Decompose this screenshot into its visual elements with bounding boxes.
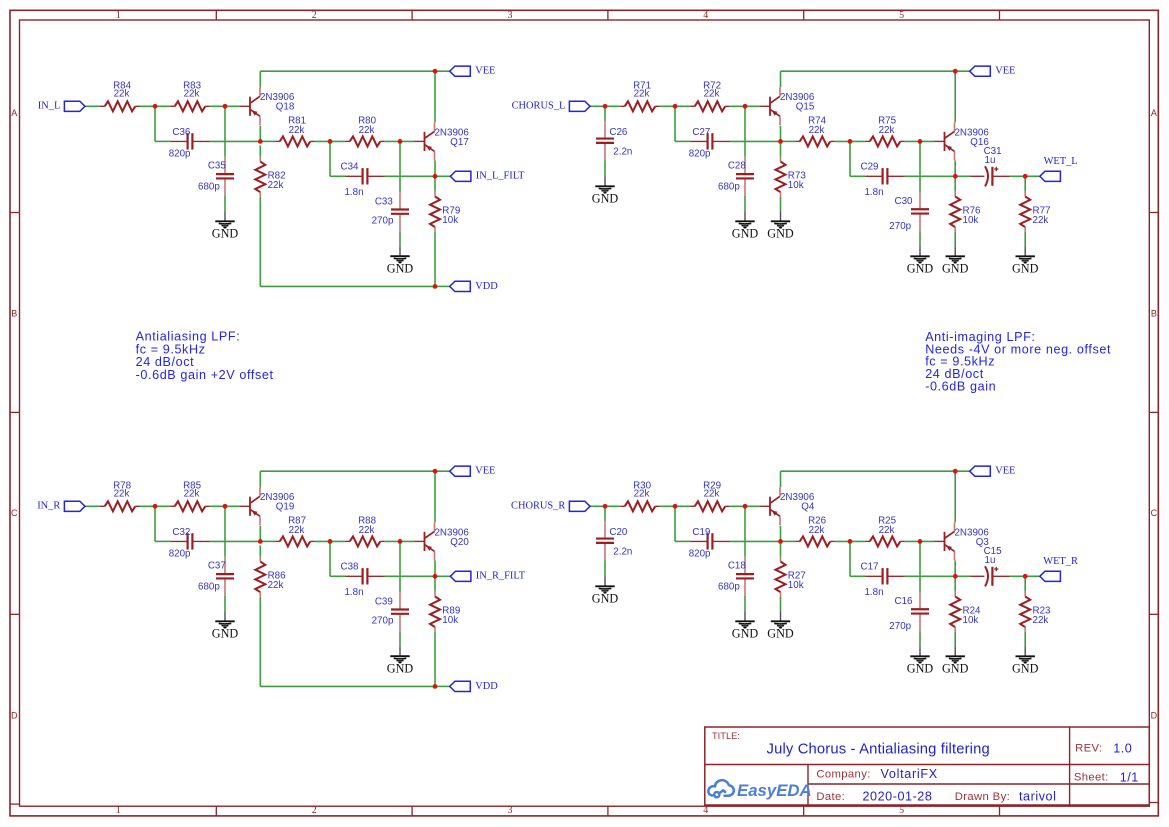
junction [433, 684, 438, 689]
title block divider [807, 765, 809, 806]
svg-text:WET_L: WET_L [1044, 156, 1078, 167]
wire [315, 540, 345, 542]
svg-text:22k: 22k [879, 525, 895, 536]
svg-text:C20: C20 [609, 527, 628, 538]
svg-text:GND: GND [942, 662, 969, 676]
svg-text:2.2n: 2.2n [613, 547, 632, 558]
svg-text:GND: GND [732, 627, 759, 641]
svg-text:CHORUS_R: CHORUS_R [511, 501, 565, 512]
wire [850, 175, 866, 177]
wire [434, 71, 436, 122]
capacitor C36 820p [169, 127, 210, 160]
svg-text:C26: C26 [609, 127, 628, 138]
junction [433, 69, 438, 74]
ground [942, 646, 969, 675]
wire [780, 541, 782, 556]
wire [399, 141, 401, 192]
wire [660, 105, 690, 107]
junction [918, 139, 923, 144]
wire [675, 540, 691, 542]
port CHORUS_R [511, 501, 590, 512]
capacitor C27 820p [689, 127, 730, 160]
frame tick [999, 806, 1001, 816]
svg-text:C30: C30 [895, 196, 914, 207]
frame tick [1149, 411, 1158, 413]
wire [260, 540, 275, 542]
svg-text:VEE: VEE [995, 66, 1015, 77]
svg-text:Company:: Company: [816, 769, 870, 781]
wire [210, 540, 261, 542]
port VDD [450, 281, 499, 292]
svg-text:1/1: 1/1 [1120, 770, 1139, 784]
svg-text:C35: C35 [208, 160, 227, 171]
capacitor C18 680p [718, 557, 754, 596]
svg-text:D: D [11, 710, 18, 720]
resistor R86 22k [255, 557, 286, 597]
wire [435, 470, 450, 472]
wire [399, 631, 401, 646]
wire [385, 575, 436, 577]
wire [675, 140, 691, 142]
transistor Q18 2N3906 PNP [240, 87, 295, 125]
svg-text:22k: 22k [704, 488, 720, 499]
capacitor C17 1.8n [861, 562, 905, 599]
wire [330, 175, 346, 177]
frame tick [215, 10, 217, 20]
svg-text:GND: GND [592, 592, 619, 606]
ground [767, 211, 794, 240]
svg-text:GND: GND [212, 227, 239, 241]
svg-text:3: 3 [508, 805, 513, 816]
svg-text:Date:: Date: [816, 791, 845, 803]
wire [435, 285, 450, 287]
svg-text:1.8n: 1.8n [864, 187, 883, 198]
wire [259, 126, 261, 141]
junction [258, 539, 263, 544]
resistor R27 10k [776, 557, 806, 597]
wire [850, 575, 866, 577]
capacitor C37 680p [198, 557, 234, 596]
svg-text:C32: C32 [172, 527, 190, 538]
svg-text:22k: 22k [704, 88, 720, 99]
wire [210, 105, 240, 107]
wire [155, 140, 171, 142]
svg-text:WET_R: WET_R [1043, 556, 1078, 567]
wire [744, 506, 746, 557]
capacitor C26 2.2n [596, 121, 632, 160]
wire [780, 141, 782, 156]
wire [905, 140, 935, 142]
capacitor C16 270p [889, 592, 929, 632]
junction [673, 504, 678, 509]
wire [730, 105, 760, 107]
junction [398, 539, 403, 544]
svg-text:1.0: 1.0 [1113, 741, 1132, 755]
svg-text:tarivol: tarivol [1019, 790, 1056, 804]
svg-text:Q19: Q19 [276, 502, 295, 513]
wire [385, 540, 415, 542]
svg-text:C18: C18 [728, 560, 747, 571]
capacitor C29 1.8n [861, 162, 905, 199]
svg-text:A: A [11, 108, 17, 118]
frame tick [10, 411, 20, 413]
svg-text:Drawn By:: Drawn By: [955, 791, 1010, 803]
wire [781, 540, 796, 542]
svg-text:IN_R_FILT: IN_R_FILT [476, 571, 526, 582]
wire [730, 540, 781, 542]
svg-text:22k: 22k [114, 88, 130, 99]
wire [674, 106, 676, 141]
junction [603, 504, 608, 509]
wire VEE rail [260, 470, 435, 472]
wire [781, 140, 796, 142]
svg-text:C27: C27 [692, 127, 710, 138]
svg-text:680p: 680p [718, 181, 740, 192]
wire [434, 161, 436, 177]
transistor Q19 2N3906 PNP [240, 487, 295, 525]
svg-text:Q17: Q17 [450, 137, 469, 148]
frame tick [411, 806, 413, 816]
svg-text:22k: 22k [268, 580, 284, 591]
svg-text:B: B [11, 309, 17, 319]
wire [604, 560, 606, 576]
svg-text:820p: 820p [689, 149, 711, 160]
ground [907, 646, 934, 675]
transistor Q4 2N3906 PNP [760, 487, 815, 525]
wire [259, 471, 261, 487]
junction [848, 139, 853, 144]
wire [849, 541, 851, 576]
wire [154, 106, 156, 141]
port CHORUS_L [512, 101, 590, 112]
svg-text:Antialiasing LPF:: Antialiasing LPF: [136, 329, 241, 343]
svg-text:C: C [1151, 508, 1158, 518]
frame tick [10, 803, 20, 805]
wire [780, 526, 782, 542]
wire [259, 545, 261, 556]
wire [590, 105, 605, 107]
svg-text:C38: C38 [341, 562, 360, 573]
wire [385, 175, 436, 177]
ground [767, 611, 794, 640]
resistor R83 22k [170, 81, 210, 112]
svg-text:REV:: REV: [1075, 743, 1102, 755]
svg-text:GND: GND [767, 227, 794, 241]
wire [224, 196, 226, 212]
junction [223, 504, 228, 509]
transistor Q15 2N3906 PNP [760, 87, 815, 125]
resistor R30 22k [620, 481, 660, 512]
wire [730, 140, 781, 142]
wire [905, 540, 935, 542]
wire [604, 106, 606, 121]
junction [848, 539, 853, 544]
wire [435, 70, 450, 72]
wire [224, 596, 226, 612]
svg-text:C39: C39 [375, 596, 393, 607]
wire [315, 140, 345, 142]
wire [1025, 175, 1040, 177]
svg-text:22k: 22k [879, 125, 895, 136]
wire [259, 71, 261, 87]
capacitor C39 270p [372, 592, 409, 631]
svg-text:22k: 22k [809, 525, 825, 536]
wire [224, 106, 226, 157]
wire [919, 231, 921, 247]
junction [953, 174, 958, 179]
junction [433, 174, 438, 179]
wire [140, 505, 171, 507]
wire [835, 140, 865, 142]
svg-text:TITLE:: TITLE: [712, 731, 740, 741]
svg-text:680p: 680p [718, 581, 740, 592]
wire [259, 526, 261, 542]
wire [1024, 632, 1026, 647]
title block box [705, 727, 1150, 805]
wire [919, 541, 921, 592]
svg-text:1: 1 [116, 10, 121, 21]
junction [153, 104, 158, 109]
frame tick [10, 212, 20, 214]
svg-text:270p: 270p [889, 221, 911, 232]
wire [835, 540, 865, 542]
frame tick [215, 806, 217, 816]
frame tick [1149, 613, 1158, 615]
resistor R75 22k [865, 116, 905, 147]
junction [328, 539, 333, 544]
svg-text:10k: 10k [963, 215, 979, 226]
resistor R73 10k [776, 157, 807, 197]
wire [604, 160, 606, 176]
transistor Q20 2N3906 PNP [415, 522, 470, 560]
wire [674, 506, 676, 541]
svg-text:C29: C29 [861, 162, 879, 173]
svg-text:4: 4 [703, 10, 708, 21]
ground [387, 646, 414, 675]
svg-text:GND: GND [907, 662, 934, 676]
svg-text:22k: 22k [289, 525, 305, 536]
wire [434, 176, 436, 191]
capacitor C32 820p [169, 527, 210, 560]
svg-text:IN_L_FILT: IN_L_FILT [476, 171, 525, 182]
wire [1024, 576, 1026, 591]
svg-text:1u: 1u [985, 155, 996, 166]
junction [433, 469, 438, 474]
wire [744, 196, 746, 212]
wire [730, 505, 760, 507]
wire [919, 141, 921, 192]
resistor R29 22k [690, 481, 730, 512]
svg-text:-0.6dB gain +2V offset: -0.6dB gain +2V offset [136, 368, 274, 382]
svg-text:22k: 22k [359, 525, 375, 536]
svg-text:680p: 680p [198, 181, 220, 192]
svg-text:C16: C16 [895, 596, 914, 607]
title block divider [705, 764, 1150, 766]
resistor R82 22k [255, 157, 285, 197]
resistor R76 10k [950, 192, 981, 232]
svg-text:EasyEDA: EasyEDA [737, 781, 812, 800]
wire [919, 631, 921, 647]
wire [329, 541, 331, 576]
wire [434, 561, 436, 577]
capacitor C31 1u polarized [971, 146, 1010, 186]
wire VEE rail [781, 70, 956, 72]
port VDD [450, 681, 499, 692]
wire [85, 105, 101, 107]
resistor R77 22k [1020, 192, 1050, 232]
wire [1024, 232, 1026, 247]
junction [743, 504, 748, 509]
svg-text:820p: 820p [689, 549, 711, 560]
capacitor C30 270p [889, 192, 929, 232]
svg-text:4: 4 [703, 805, 708, 816]
svg-text:July Chorus - Antialiasing fil: July Chorus - Antialiasing filtering [767, 741, 990, 757]
svg-text:1.8n: 1.8n [864, 587, 883, 598]
wire VEE rail [260, 70, 435, 72]
wire [955, 70, 970, 72]
capacitor C35 680p [198, 157, 234, 196]
frame tick [607, 806, 609, 816]
svg-text:VEE: VEE [475, 66, 495, 77]
wire [954, 471, 956, 522]
wire [954, 71, 956, 122]
wire [434, 576, 436, 591]
junction [953, 69, 958, 74]
svg-text:22k: 22k [1033, 615, 1049, 626]
transistor Q17 2N3906 PNP [415, 122, 470, 160]
resistor R80 22k [345, 116, 385, 147]
junction [258, 139, 263, 144]
port WET_R [1040, 556, 1078, 581]
capacitor C34 1.8n [341, 162, 385, 199]
wire [399, 541, 401, 592]
annotation Anti-imaging LPF [925, 330, 1111, 394]
frame tick [803, 10, 805, 20]
junction [1023, 574, 1028, 579]
svg-text:22k: 22k [184, 88, 200, 99]
wire VDD rail [260, 685, 435, 687]
svg-text:5: 5 [899, 10, 904, 21]
resistor R74 22k [795, 116, 835, 147]
wire [604, 506, 606, 521]
svg-text:270p: 270p [372, 616, 394, 627]
wire [780, 471, 782, 487]
svg-text:680p: 680p [198, 581, 220, 592]
wire [224, 506, 226, 557]
frame tick [411, 10, 413, 20]
svg-text:VDD: VDD [475, 281, 498, 292]
svg-text:270p: 270p [889, 621, 911, 632]
svg-text:VoltariFX: VoltariFX [881, 767, 938, 781]
svg-text:10k: 10k [788, 580, 804, 591]
wire [954, 232, 956, 247]
svg-text:GND: GND [1012, 662, 1039, 676]
capacitor C20 2.2n [596, 521, 632, 560]
wire [590, 505, 605, 507]
wire [954, 576, 956, 591]
wire [140, 105, 171, 107]
svg-text:22k: 22k [184, 488, 200, 499]
junction [778, 539, 783, 544]
ground [592, 176, 619, 205]
svg-text:22k: 22k [809, 125, 825, 136]
svg-text:C19: C19 [692, 527, 710, 538]
wire [259, 145, 261, 156]
ground [732, 611, 759, 640]
ground [1012, 246, 1039, 275]
wire [905, 575, 956, 577]
svg-text:2.2n: 2.2n [613, 147, 632, 158]
svg-text:270p: 270p [372, 216, 394, 227]
svg-text:1u: 1u [985, 555, 996, 566]
junction [953, 469, 958, 474]
annotation Antialiasing LPF [136, 329, 274, 382]
svg-text:Q18: Q18 [276, 102, 295, 113]
wire [399, 231, 401, 246]
svg-text:C33: C33 [375, 196, 394, 207]
resistor R87 22k [275, 516, 315, 547]
ground [592, 576, 619, 605]
port VEE [970, 66, 1016, 77]
svg-text:10k: 10k [963, 615, 979, 626]
svg-text:C: C [11, 508, 18, 518]
svg-text:VEE: VEE [475, 466, 495, 477]
svg-text:B: B [1151, 309, 1157, 319]
ground [1012, 646, 1039, 675]
ground [387, 246, 414, 275]
port VEE [450, 66, 496, 77]
ground [212, 611, 239, 640]
capacitor C19 820p [689, 527, 730, 560]
svg-text:2: 2 [312, 805, 317, 816]
wire [259, 597, 261, 686]
wire [259, 197, 261, 286]
junction [433, 284, 438, 289]
svg-text:22k: 22k [114, 488, 130, 499]
svg-text:GND: GND [592, 192, 619, 206]
wire [954, 176, 956, 191]
frame tick [803, 806, 805, 816]
wire [955, 470, 970, 472]
svg-text:-0.6dB gain: -0.6dB gain [925, 380, 996, 394]
port VEE [450, 466, 496, 477]
svg-text:GND: GND [767, 627, 794, 641]
junction [603, 104, 608, 109]
frame tick [999, 10, 1001, 20]
wire [744, 596, 746, 612]
svg-text:1.8n: 1.8n [344, 587, 363, 598]
resistor R79 10k [430, 192, 460, 232]
svg-text:VEE: VEE [995, 466, 1015, 477]
ground [732, 211, 759, 240]
svg-text:Q4: Q4 [801, 502, 815, 513]
resistor R24 10k [950, 592, 981, 632]
svg-text:C36: C36 [172, 127, 191, 138]
port IN_R [37, 501, 85, 512]
resistor R81 22k [275, 116, 315, 147]
junction [223, 104, 228, 109]
svg-text:22k: 22k [634, 88, 650, 99]
svg-text:2020-01-28: 2020-01-28 [863, 790, 933, 804]
svg-text:GND: GND [732, 227, 759, 241]
wire [780, 126, 782, 141]
svg-text:C17: C17 [861, 562, 879, 573]
wire [905, 175, 956, 177]
frame tick [10, 613, 20, 615]
wire [210, 505, 240, 507]
svg-text:Q15: Q15 [796, 102, 815, 113]
ground [942, 246, 969, 275]
